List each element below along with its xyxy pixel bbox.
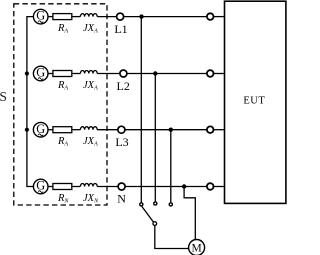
generator G4 [33,179,48,194]
svg-text:L3: L3 [115,135,128,149]
generator G3 [33,122,48,137]
wire L3 drop [170,130,172,203]
wire to EUT row1 [214,16,225,18]
wire L1-EUT [124,16,207,18]
wire G1-R1 [48,16,53,18]
wire coil4-N [97,186,118,188]
terminal L3-EUT [207,126,214,133]
wire to EUT row3 [214,129,225,131]
wire R3-coil3 [72,129,81,131]
inductor JXA2 [80,71,97,74]
wire L2-EUT [127,73,207,75]
svg-text:G: G [36,179,45,193]
node L2 junction [153,71,157,75]
svg-text:G: G [36,122,45,136]
resistor RA3 [53,127,72,133]
inductor JXA1 [80,14,97,17]
wire L1 drop [140,17,142,203]
source box (dashed) [14,4,107,205]
wire pole-M [155,226,189,249]
wire R4-coil4 [72,186,81,188]
svg-text:L2: L2 [117,79,130,93]
generator G2 [33,66,48,81]
svg-text:G: G [36,66,45,80]
wire G2-R2 [48,73,53,75]
wire R2-coil2 [72,73,81,75]
wire coil1-L1 [97,16,116,18]
svg-text:M: M [191,243,201,255]
svg-text:S: S [0,89,7,104]
wire coil2-L2 [97,73,119,75]
node L3 junction [169,128,173,132]
terminal L1-EUT [207,13,214,20]
terminal L1 [117,13,124,20]
node bus-row2 junction [25,71,29,75]
svg-text:N: N [117,192,126,206]
wire coil3-L3 [97,129,117,131]
wire L2 drop [154,74,156,202]
switch contact c [169,203,172,206]
switch contact b [154,202,157,205]
wire G4-R4 [48,186,53,188]
resistor RA1 [53,14,72,20]
terminal N [118,183,125,190]
wire G3-R3 [48,129,53,131]
inductor JXN [80,184,97,187]
node L1 junction [139,14,143,18]
inductor JXA3 [80,127,97,130]
svg-text:G: G [36,9,45,23]
wire to EUT row2 [214,73,225,75]
motor M [189,240,205,255]
wire L3-EUT [125,129,207,131]
switch arm [142,207,154,223]
wire to EUT row4 [214,186,225,188]
terminal L3 [118,126,125,133]
svg-text:L1: L1 [114,22,127,36]
terminal L2 [120,70,127,77]
node N junction [182,184,186,188]
resistor RA2 [53,71,72,77]
EUT box [225,1,286,203]
wire N-EUT [125,186,207,188]
terminal L2-EUT [207,70,214,77]
wire R1-L1coil [72,16,81,18]
wire left bus [27,17,34,187]
switch contact a [140,203,143,206]
generator G1 [33,9,48,24]
resistor RN [53,184,72,190]
svg-text:EUT: EUT [243,96,265,107]
switch pole [153,222,157,226]
node bus-row3 junction [25,128,29,132]
wire N-M [184,187,195,240]
terminal N-EUT [207,183,214,190]
